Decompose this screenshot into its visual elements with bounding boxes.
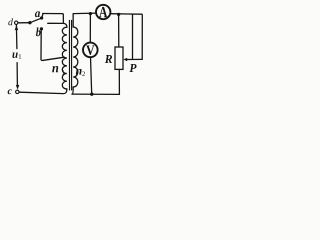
node: resistor top junction: [117, 13, 120, 16]
wire top right of ammeter: [110, 14, 142, 60]
arrowhead of wiper P pointing at R: [123, 58, 127, 62]
label c: [8, 89, 12, 94]
wire wiper inner vertical: [132, 14, 134, 59]
label P: [129, 64, 136, 72]
resistor R body: [115, 47, 123, 69]
switch blade S (pivot to contact a): [30, 18, 41, 23]
wire wiper horizontal: [126, 58, 142, 60]
wire tap lead at winding top: [48, 22, 64, 24]
label d: [8, 18, 13, 25]
wire contact a riser: [42, 14, 43, 18]
label n1 n: [52, 66, 58, 72]
label u1 sub: [19, 54, 21, 58]
transformer T1 secondary winding n2: [73, 14, 78, 87]
label u1 u: [12, 53, 17, 58]
node: switch pivot junction: [28, 21, 31, 24]
wire contact b to winding tap: [41, 29, 64, 60]
wire voltmeter bottom lead: [91, 57, 92, 94]
arrowhead of u1 pointing up to d: [15, 25, 19, 30]
label n1 sub: [62, 70, 64, 74]
wire top primary (a to transformer T1 top): [43, 14, 64, 24]
voltmeter V: [83, 43, 98, 58]
node: voltmeter top junction: [89, 12, 92, 15]
wire resistor bottom lead: [118, 69, 120, 94]
node: voltmeter bottom junction: [90, 93, 93, 96]
node: contact b: [40, 27, 43, 30]
label n2 sub: [82, 72, 85, 77]
wire bottom right (secondary to resistor R bottom): [72, 93, 119, 95]
wire secondary bottom lead: [72, 87, 73, 94]
wire bottom left (c to transformer primary bottom): [19, 89, 67, 93]
label A in ammeter: [99, 7, 107, 17]
terminal d: [15, 21, 18, 24]
label a: [35, 11, 40, 17]
wire d to switch pivot: [18, 22, 30, 24]
node: contact a: [40, 16, 43, 19]
voltage arrow u1 upper segment: [15, 25, 18, 49]
wire resistor R top lead: [118, 14, 120, 47]
arrowhead of u1 pointing to c: [16, 85, 19, 90]
label V in voltmeter: [86, 45, 94, 55]
label b: [36, 28, 41, 37]
terminal c: [16, 90, 19, 93]
transformer core line 1: [68, 20, 70, 90]
transformer T1 primary winding n1: [62, 23, 67, 89]
label R: [105, 55, 112, 63]
voltage arrow u1 lower segment with arrowhead: [16, 63, 18, 86]
transformer core line 2: [71, 20, 73, 90]
ammeter A: [96, 5, 110, 19]
label n2 n: [76, 69, 82, 75]
wire voltmeter top lead: [89, 14, 91, 43]
wire top secondary left of ammeter: [73, 12, 96, 15]
